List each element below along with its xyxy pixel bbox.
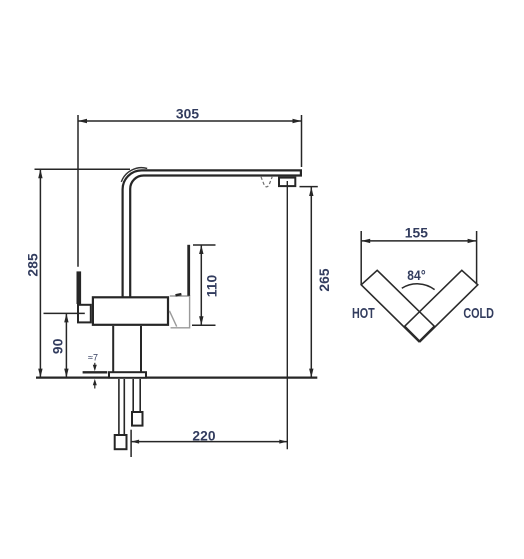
dim 7 upper tick bbox=[83, 371, 108, 373]
handle position hot bar bbox=[361, 270, 434, 341]
svg-text:110: 110 bbox=[204, 274, 219, 297]
dim 305 right extension line bbox=[301, 115, 303, 167]
svg-text:≈7: ≈7 bbox=[88, 353, 98, 363]
dim 110 line bbox=[200, 245, 202, 325]
outlet center line bbox=[286, 181, 288, 449]
dim 155 line bbox=[361, 240, 476, 242]
svg-text:84°: 84° bbox=[407, 267, 425, 283]
dim 285 bottom arrow bbox=[38, 369, 42, 378]
svg-text:305: 305 bbox=[176, 107, 200, 122]
dim 285 top arrow bbox=[38, 169, 42, 178]
aerator box bbox=[279, 178, 295, 187]
handle lever bar bbox=[77, 271, 82, 304]
svg-text:155: 155 bbox=[405, 225, 429, 240]
cartridge cap pivot tick bbox=[176, 294, 182, 295]
dim 265 line bbox=[310, 187, 312, 378]
dim 220 left arrow bbox=[131, 440, 139, 444]
cartridge cap outline bbox=[170, 296, 190, 328]
dim 7 down arrow bbox=[94, 363, 96, 366]
svg-text:90: 90 bbox=[50, 338, 65, 354]
dim 305 line bbox=[78, 120, 302, 122]
neck left line bbox=[112, 326, 114, 372]
dim 155 left arrow bbox=[361, 239, 370, 243]
dim 305 left arrow bbox=[78, 119, 87, 123]
svg-text:HOT: HOT bbox=[352, 304, 375, 321]
svg-text:285: 285 bbox=[25, 253, 40, 277]
dim 265 bottom arrow bbox=[309, 369, 313, 378]
handle base box bbox=[78, 305, 91, 323]
cartridge cap fill bbox=[170, 296, 190, 328]
dim 110 bottom arrow bbox=[199, 316, 203, 325]
spout bend highlight arc bbox=[121, 168, 147, 182]
dim 110 top tick bbox=[193, 244, 216, 246]
faucet spout and riser outline bbox=[123, 170, 301, 296]
countertop line right segment bbox=[147, 377, 317, 379]
dim 90 top tick bbox=[44, 312, 85, 314]
aerator dashed notch bbox=[261, 177, 272, 187]
neck right line bbox=[140, 326, 142, 372]
svg-text:COLD: COLD bbox=[463, 304, 494, 321]
countertop line left segment bbox=[36, 377, 108, 379]
svg-text:265: 265 bbox=[317, 268, 332, 292]
dim 7 up arrow bbox=[94, 385, 96, 389]
angle arc 84 bbox=[402, 284, 435, 290]
flange bbox=[109, 372, 146, 378]
dim 305 right arrow bbox=[293, 119, 302, 123]
faucet body bbox=[93, 297, 168, 325]
dim 110 bottom tick bbox=[192, 324, 216, 326]
dim 220 right arrow bbox=[279, 440, 287, 444]
dim 305 left extension line bbox=[77, 115, 79, 267]
cartridge cap crease bbox=[169, 311, 176, 327]
dim 285 line bbox=[39, 169, 41, 377]
dim 155 right arrow bbox=[468, 239, 477, 243]
hose 1 end fitting bbox=[115, 435, 127, 449]
dim 285 top tick bbox=[35, 168, 131, 170]
dim 220 line bbox=[131, 441, 287, 443]
hose 2 end fitting bbox=[132, 412, 143, 426]
dim 155 right extension line bbox=[476, 231, 478, 285]
dim 220 left extension line bbox=[130, 430, 132, 457]
dim 155 left extension line bbox=[360, 231, 362, 285]
dim 265 top arrow bbox=[309, 187, 313, 196]
dim 90 top arrow bbox=[64, 313, 68, 322]
dim 110 top arrow bbox=[199, 245, 203, 254]
hose 2 lines bbox=[132, 379, 134, 412]
svg-text:220: 220 bbox=[192, 428, 216, 443]
dim 90 bottom arrow bbox=[64, 369, 68, 378]
mixer lever blade bbox=[187, 245, 190, 296]
handle position cold bar bbox=[405, 270, 478, 341]
hose 1 lines bbox=[118, 379, 120, 436]
dim 90 line bbox=[65, 313, 67, 377]
dim 265 top tick bbox=[300, 186, 318, 188]
